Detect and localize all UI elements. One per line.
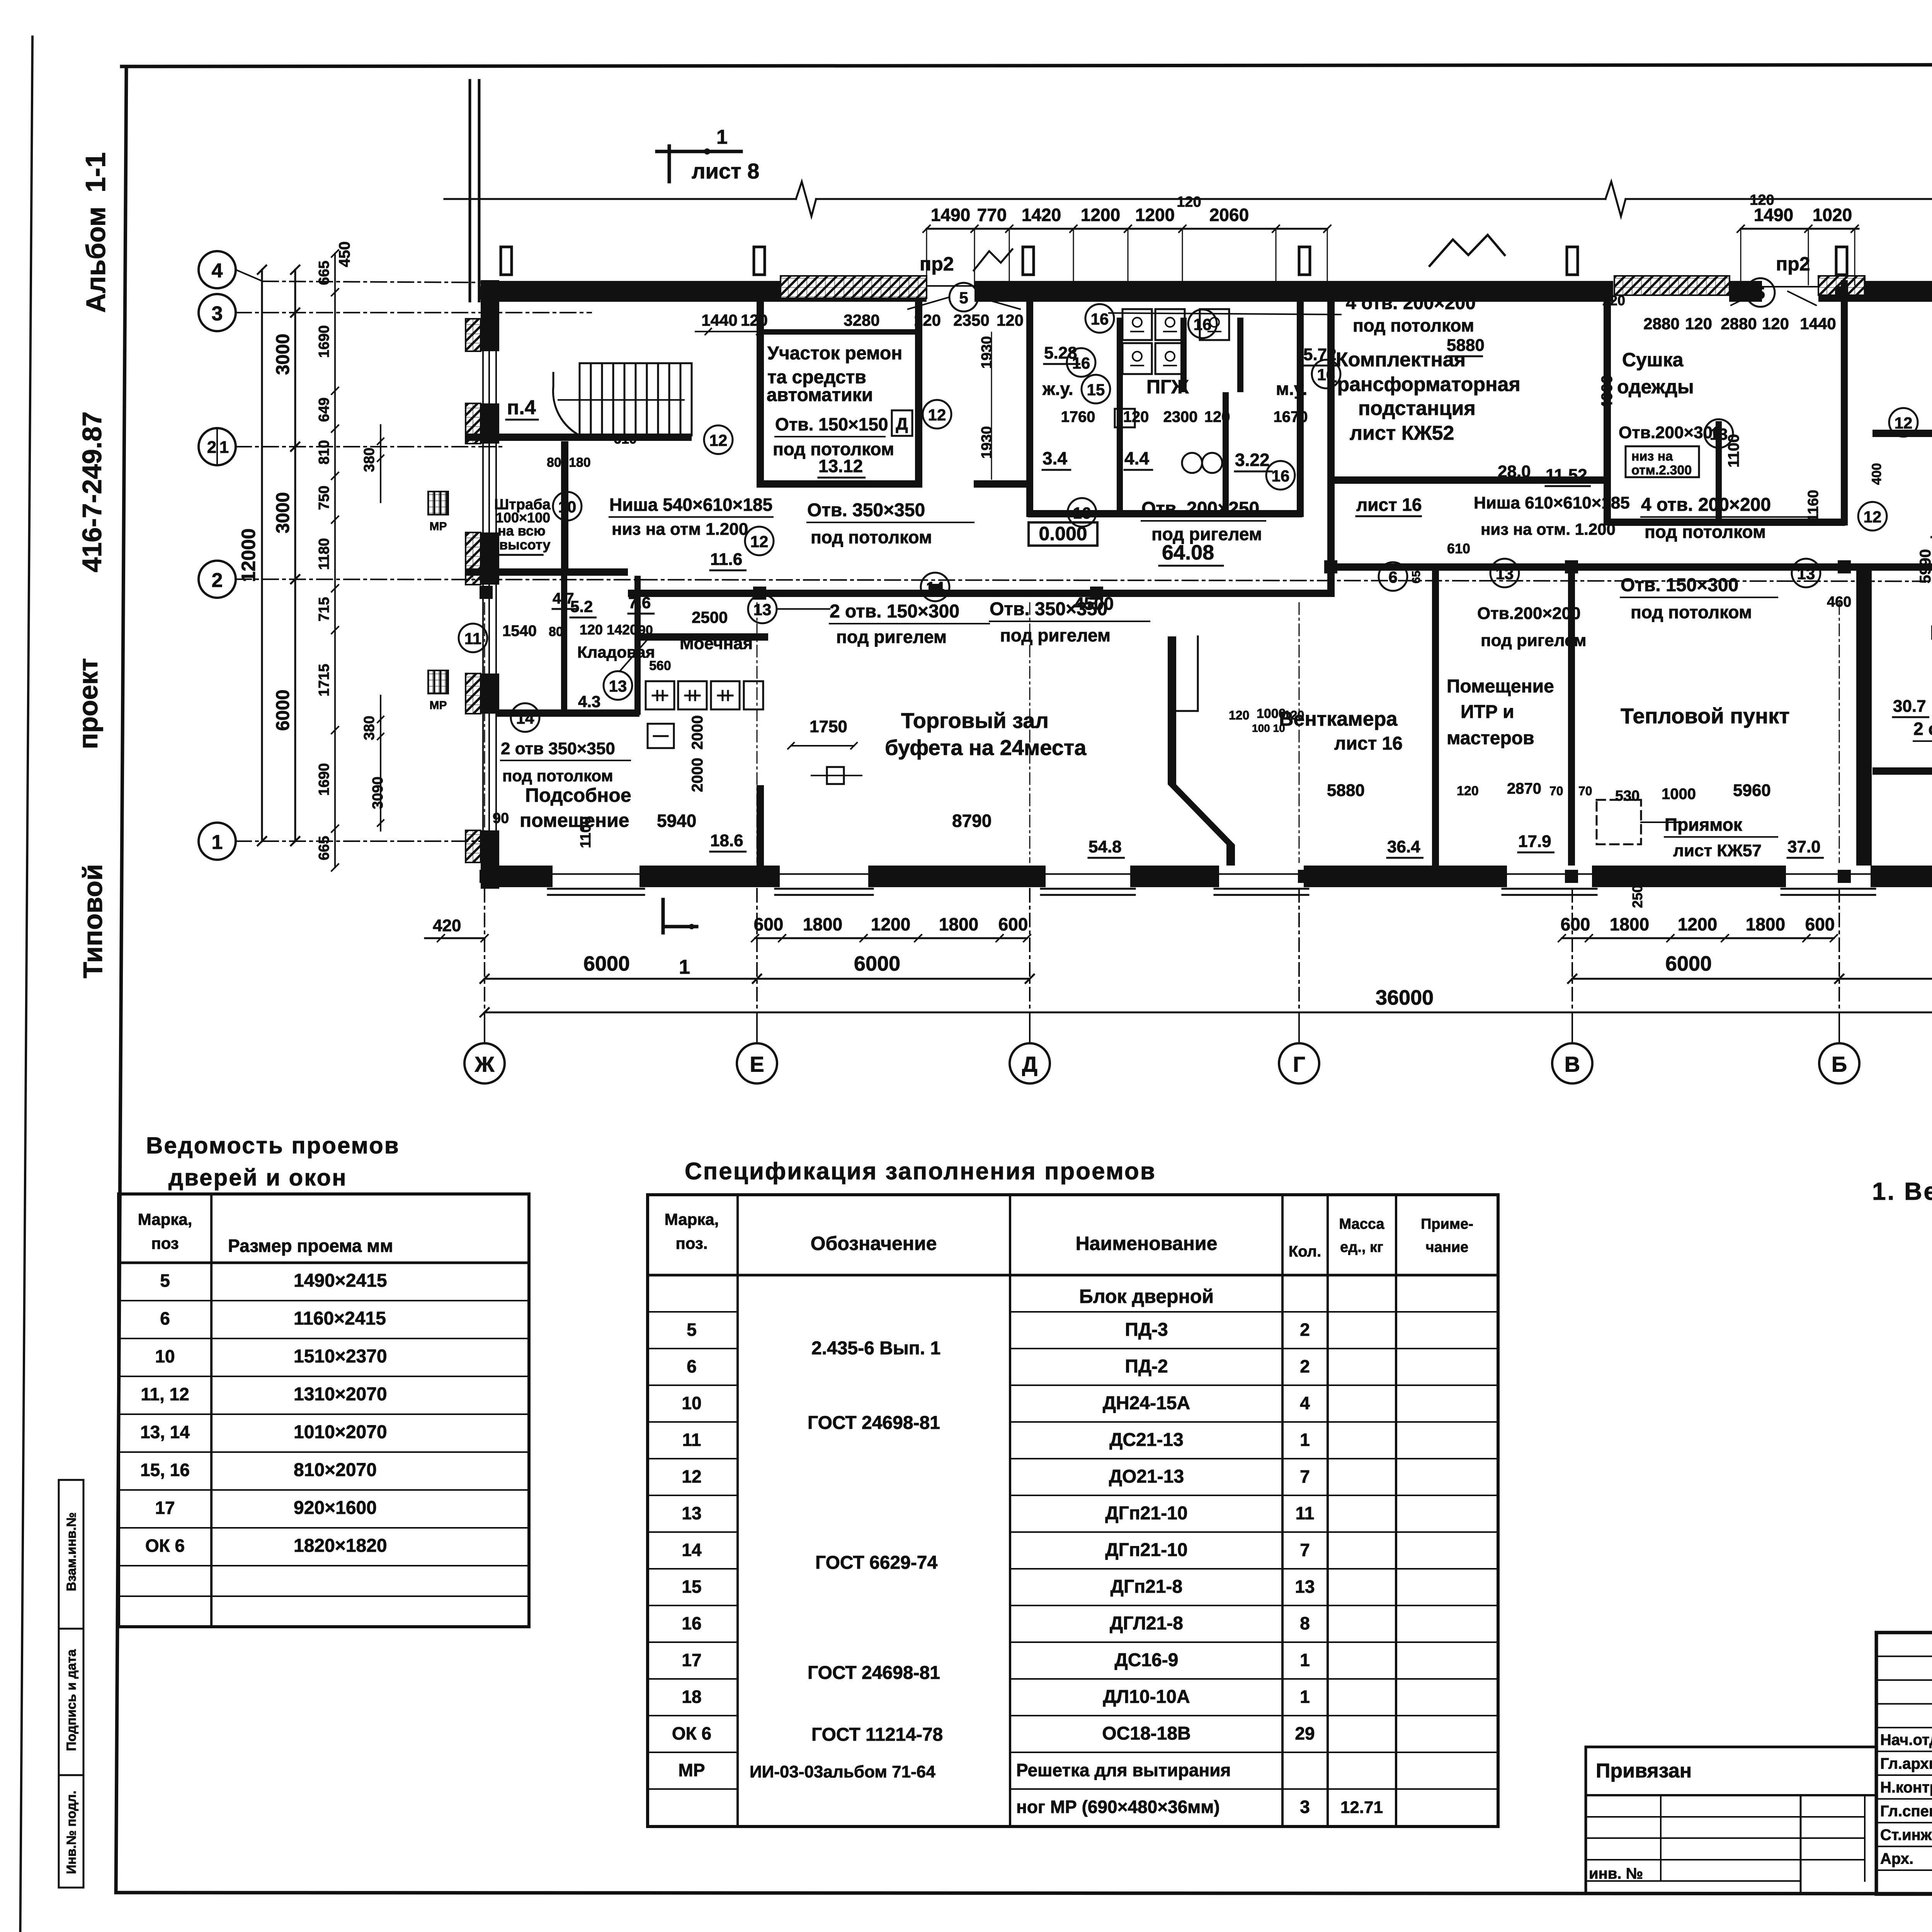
svg-text:12.71: 12.71 [1340,1798,1383,1817]
svg-text:5.2: 5.2 [570,597,593,616]
svg-text:16: 16 [682,1613,701,1633]
axis dash line in plan [1299,603,1300,862]
svg-text:90: 90 [493,810,509,827]
svg-text:1310×2070: 1310×2070 [294,1384,387,1405]
svg-text:11.6: 11.6 [710,550,742,569]
svg-text:250: 250 [1629,885,1645,908]
svg-text:ПГЖ: ПГЖ [1146,376,1189,398]
svg-text:Ниша 540×610×185: Ниша 540×610×185 [609,495,772,515]
svg-text:13: 13 [609,677,627,695]
svg-text:Размер проема мм: Размер проема мм [228,1236,393,1256]
svg-text:600: 600 [1805,914,1835,934]
svg-text:2: 2 [212,569,223,592]
svg-text:2060: 2060 [1209,205,1249,225]
svg-text:1800: 1800 [803,914,842,934]
svg-text:2: 2 [1300,1320,1310,1340]
svg-text:120: 120 [1204,408,1230,425]
wall: repair room right wall [915,302,922,487]
wall: stair bottom wall [466,434,692,441]
wall: axis G wall [1297,302,1304,517]
svg-text:Кладовая: Кладовая [577,643,655,661]
svg-text:16: 16 [1073,504,1091,522]
svg-text:14: 14 [682,1540,702,1560]
svg-text:1800: 1800 [1610,914,1649,934]
svg-text:1100: 1100 [578,816,594,848]
svg-text:ДС21-13: ДС21-13 [1109,1430,1184,1450]
column [480,286,493,299]
svg-text:лист 16: лист 16 [1334,733,1403,754]
svg-text:3.22: 3.22 [1235,450,1270,470]
svg-text:Привязан: Привязан [1596,1760,1692,1782]
svg-text:2: 2 [207,438,216,457]
svg-text:4: 4 [212,260,223,282]
svg-text:4 отв. 200×200: 4 отв. 200×200 [1346,293,1476,313]
svg-text:649: 649 [316,398,332,422]
svg-text:ед., кг: ед., кг [1340,1239,1383,1255]
svg-text:14: 14 [926,578,944,597]
ref circle 15 [1082,375,1110,403]
svg-text:12: 12 [928,406,946,424]
svg-text:ГОСТ 24698-81: ГОСТ 24698-81 [808,1663,940,1683]
left exterior wall [466,280,499,889]
ref circle 16 [1085,304,1114,333]
svg-text:380: 380 [361,716,378,740]
svg-text:лист 12: лист 12 [1930,523,1932,542]
svg-text:28.0: 28.0 [1498,462,1531,481]
svg-text:36.4: 36.4 [1387,837,1420,856]
svg-text:Обозначение: Обозначение [811,1233,937,1254]
svg-text:380: 380 [361,447,378,472]
svg-text:Гл.архпр: Гл.архпр [1880,1755,1932,1772]
axis dash line in plan [1572,603,1573,862]
svg-text:120: 120 [1123,408,1149,425]
svg-text:5.28: 5.28 [1044,344,1077,362]
svg-text:лист КЖ57: лист КЖ57 [1673,841,1762,860]
svg-text:под потолком: под потолком [1645,522,1766,542]
svg-text:7: 7 [1300,1466,1310,1486]
svg-text:Спецификация заполнения: Спецификация заполнения проемов [685,1158,1156,1185]
svg-text:1180: 1180 [316,538,332,570]
axis line Е [756,889,758,1043]
svg-text:5.72: 5.72 [1303,345,1337,364]
svg-text:610: 610 [614,431,637,447]
svg-text:18.6: 18.6 [710,831,743,850]
axis bubble 1 [199,823,236,860]
svg-text:1800: 1800 [939,914,978,934]
wing cut line middle part [816,198,1605,200]
ref circle 6 [1379,562,1407,591]
column [480,586,493,599]
ref circle 14 [921,573,949,601]
svg-text:6000: 6000 [854,952,900,975]
svg-text:Наименование: Наименование [1076,1233,1218,1254]
top exterior wall [481,276,1932,302]
svg-text:11: 11 [1296,1503,1315,1523]
svg-text:5940: 5940 [657,811,696,831]
ref circle 12 [923,400,951,429]
svg-text:90: 90 [638,623,653,638]
svg-text:530: 530 [1615,788,1639,804]
svg-text:Масса: Масса [1339,1216,1384,1232]
wall: drying room bottom wall [1608,519,1845,526]
axis line Г [1298,889,1300,1043]
ref circle 12 [1889,408,1918,437]
svg-text:920×1600: 920×1600 [294,1498,377,1518]
svg-text:1820×1820: 1820×1820 [294,1536,387,1556]
svg-text:1: 1 [1300,1687,1310,1707]
svg-text:120: 120 [914,311,941,329]
svg-text:665: 665 [316,836,332,860]
svg-text:3: 3 [212,303,223,325]
svg-text:Тепловой пункт: Тепловой пункт [1621,704,1790,728]
svg-text:2: 2 [1300,1356,1310,1376]
svg-text:ИИ-03-03альбом 71-64: ИИ-03-03альбом 71-64 [750,1762,935,1781]
svg-text:под ригелем: под ригелем [1000,625,1111,645]
stamp column divider 1 [59,1628,83,1630]
svg-text:12: 12 [682,1466,701,1486]
axis line 2 [236,579,1932,582]
vent chamber wall [1168,636,1235,866]
svg-text:4.4: 4.4 [1124,448,1149,468]
svg-text:665: 665 [316,261,332,285]
svg-text:ГОСТ 11214-78: ГОСТ 11214-78 [811,1725,943,1745]
svg-text:29: 29 [1295,1723,1315,1743]
svg-text:2880: 2880 [1643,315,1679,333]
svg-text:810×2070: 810×2070 [294,1460,377,1480]
svg-text:610: 610 [1447,541,1470,556]
svg-text:13: 13 [1496,565,1514,583]
svg-text:15: 15 [1087,381,1105,399]
dimension line 6000 row [485,978,1030,980]
ref circle 16 [1312,360,1340,388]
svg-text:ДГЛ21-8: ДГЛ21-8 [1110,1613,1183,1634]
svg-text:ОС18-18В: ОС18-18В [1102,1723,1190,1744]
svg-text:1: 1 [1300,1650,1310,1670]
svg-text:13, 14: 13, 14 [140,1422,190,1442]
column [1835,286,1848,299]
svg-text:1440: 1440 [1800,315,1836,333]
svg-text:ДГп21-10: ДГп21-10 [1105,1540,1187,1560]
svg-text:65: 65 [1410,571,1423,583]
svg-text:1020: 1020 [1813,205,1852,225]
svg-text:1490: 1490 [931,205,970,225]
svg-text:5990: 5990 [1917,549,1932,583]
svg-text:420: 420 [433,916,461,935]
stamp column right line [83,1480,85,1888]
column [1090,587,1103,600]
svg-text:ГОСТ 6629-74: ГОСТ 6629-74 [815,1553,938,1573]
svg-text:600: 600 [754,914,784,934]
svg-text:1800: 1800 [1746,914,1785,934]
left dim chain 3000/6000 [294,270,296,841]
svg-text:Марка,: Марка, [138,1210,192,1228]
svg-text:7.6: 7.6 [628,594,651,612]
svg-text:5960: 5960 [1733,781,1771,800]
column [1565,560,1578,573]
svg-text:Г: Г [1293,1052,1305,1076]
svg-text:17: 17 [155,1498,175,1518]
svg-text:ГОСТ 24698-81: ГОСТ 24698-81 [808,1413,940,1433]
svg-text:отм.2.300: отм.2.300 [1631,463,1692,478]
svg-text:ДС16-9: ДС16-9 [1115,1650,1179,1670]
ref circle 13 [1704,419,1733,448]
break mark right [1605,182,1626,216]
svg-text:5: 5 [160,1270,170,1291]
column [480,870,493,883]
svg-text:3: 3 [1300,1797,1310,1817]
svg-text:11, 12: 11, 12 [141,1384,189,1404]
wall: warm-up room top wall [1872,767,1932,775]
wall: transformer room right wall [1604,302,1611,526]
svg-text:под потолком: под потолком [811,527,932,547]
svg-text:3280: 3280 [844,311,879,329]
svg-text:5880: 5880 [1447,336,1485,355]
axis dash line in plan [484,603,485,862]
svg-text:2300: 2300 [1163,408,1198,425]
svg-text:поз.: поз. [675,1234,707,1252]
svg-text:Н.контр: Н.контр [1880,1779,1932,1796]
svg-text:1: 1 [219,438,229,457]
left dim chain 12000 [261,270,263,841]
svg-text:1200: 1200 [1135,205,1175,225]
ref circle 13 [1792,559,1820,587]
svg-text:ПД-3: ПД-3 [1125,1320,1168,1340]
svg-text:120 1420: 120 1420 [580,622,638,638]
ref circle 16 [1266,461,1295,490]
roof chevron marks [974,235,1505,270]
section mark 8 left (list 12) [1930,491,1932,542]
svg-text:подстанция: подстанция [1358,397,1476,420]
svg-text:1750: 1750 [810,717,847,736]
svg-text:высоту: высоту [499,537,551,553]
svg-text:1420: 1420 [1022,205,1061,225]
svg-text:2880: 2880 [1721,315,1757,333]
svg-text:1: 1 [1300,1430,1310,1450]
privyazan block [1586,1747,1876,1893]
svg-text:дверей и окон: дверей и окон [168,1165,347,1190]
axis line 2/1 [236,446,506,447]
top dim chain left [927,228,1327,230]
svg-text:2350: 2350 [953,311,989,329]
svg-text:17: 17 [682,1650,701,1670]
svg-text:1: 1 [679,956,690,978]
svg-text:В: В [1565,1052,1580,1076]
svg-text:3090: 3090 [370,777,386,810]
svg-text:1490×2415: 1490×2415 [294,1270,387,1291]
dimension line 36000 [485,1012,1932,1014]
svg-text:64.08: 64.08 [1162,541,1214,564]
svg-text:м.у.: м.у. [1276,379,1307,399]
wall: ITR room left wall [1432,563,1439,866]
wall: drying room partition [1716,421,1722,526]
axis line 3 [236,312,591,313]
wall: utility room top wall [497,709,639,717]
wall: axis V wall lower [1568,563,1575,866]
svg-text:6000: 6000 [273,690,293,731]
svg-text:ног МР (690×480×36мм): ног МР (690×480×36мм) [1016,1797,1220,1817]
svg-text:одежды: одежды [1617,376,1694,398]
svg-text:12: 12 [1895,414,1913,432]
washroom sinks [646,681,763,748]
svg-text:1760: 1760 [1061,408,1095,425]
svg-text:12: 12 [750,532,769,551]
svg-text:8790: 8790 [952,811,992,831]
wc cubicles [1122,309,1229,374]
svg-text:3000: 3000 [273,334,293,375]
svg-text:Взам.инв.№: Взам.инв.№ [64,1512,79,1591]
svg-text:1690: 1690 [316,763,332,796]
wall: storeroom partition [561,576,567,710]
stamp column bottom line [59,1887,83,1889]
svg-text:инв. №: инв. № [1589,1865,1643,1882]
frame top line [122,64,1932,66]
svg-text:МР: МР [430,520,447,533]
svg-text:600: 600 [998,914,1028,934]
column [753,870,766,883]
wall: washroom top wall [638,633,768,641]
ref circle 13 [604,671,632,700]
wall: sanitary block bottom wall [1028,510,1302,517]
stair p.4 [553,363,692,435]
axis bubble Д [1010,1043,1050,1083]
wing cut line left part [444,198,796,200]
svg-text:10: 10 [155,1346,175,1366]
axis bubble Е [737,1043,777,1083]
wall: sanitary partition 2b [1223,392,1229,517]
bottom window dim chains [755,937,1027,939]
svg-text:Отв.200×300: Отв.200×300 [1619,423,1722,442]
svg-text:МР: МР [679,1760,705,1780]
svg-text:Е: Е [750,1052,764,1076]
svg-text:1000: 1000 [1257,706,1286,721]
canopy post 5 [1567,247,1578,275]
svg-text:5880: 5880 [1327,781,1365,800]
svg-text:Нач.отд: Нач.отд [1880,1731,1932,1748]
svg-text:помещение: помещение [520,810,629,831]
column [753,286,766,299]
svg-text:Подпись и дата: Подпись и дата [64,1649,79,1751]
svg-text:Приме-: Приме- [1421,1216,1473,1232]
svg-text:Участок ремон: Участок ремон [767,343,902,364]
svg-text:100 10: 100 10 [1252,722,1285,734]
svg-text:460: 460 [1827,594,1851,610]
svg-text:7: 7 [1300,1540,1310,1560]
svg-text:ДН24-15А: ДН24-15А [1103,1393,1190,1413]
svg-text:пр2: пр2 [920,253,954,275]
pit dashed box [1597,800,1685,844]
svg-text:10: 10 [558,498,577,516]
svg-text:16: 16 [1272,467,1290,485]
svg-text:1200: 1200 [871,914,910,934]
svg-text:2 отв. 150×300: 2 отв. 150×300 [830,601,959,622]
svg-text:Отв. 150×300: Отв. 150×300 [1621,575,1738,595]
svg-text:буфета на 24места: буфета на 24места [885,735,1087,760]
svg-text:под ригелем: под ригелем [1481,631,1587,650]
svg-text:1160: 1160 [1805,490,1821,522]
openings list table [119,1133,529,1627]
canopy post 3 [1023,247,1034,275]
svg-text:120: 120 [1457,784,1479,798]
column [1566,286,1579,299]
wall: corridor north wall piece [974,480,1028,488]
svg-text:1: 1 [716,126,728,148]
svg-text:Блок дверной: Блок дверной [1079,1286,1214,1307]
wall: stair side wall [561,441,568,576]
repair room inner top wall [760,329,922,335]
svg-text:750: 750 [316,486,332,510]
axis line Ж [484,889,485,1043]
svg-text:Комплектная: Комплектная [1336,349,1466,371]
svg-text:8: 8 [1300,1613,1310,1633]
svg-text:120: 120 [1750,192,1774,208]
axis dash line in plan [757,603,758,862]
wall: corridor south wall left [628,590,1327,597]
svg-text:Д: Д [896,415,908,434]
svg-text:16: 16 [1194,315,1212,333]
svg-text:1-1: 1-1 [80,152,111,192]
section mark list 8 [657,126,759,183]
svg-text:1440: 1440 [701,311,737,329]
column [1565,870,1578,883]
svg-text:1715: 1715 [316,664,332,697]
ref circle 14 [511,703,539,732]
svg-text:1000: 1000 [1662,786,1696,803]
wall: vestibule top wall [1872,430,1932,437]
svg-text:450: 450 [336,241,353,267]
svg-text:400: 400 [1869,463,1884,485]
wall: sanitary partition 2 [1180,318,1187,392]
top dim chain right [1741,228,1859,230]
ref circle 13 [1490,559,1519,587]
svg-text:1930: 1930 [979,336,995,369]
left 380 chain [380,425,381,502]
axis bubble Б [1819,1043,1859,1083]
column [929,584,942,597]
stamp column left line [58,1480,60,1888]
svg-text:13: 13 [753,600,772,619]
svg-text:ПД-2: ПД-2 [1125,1356,1168,1377]
svg-text:80: 80 [547,455,561,470]
svg-text:37.0: 37.0 [1787,837,1821,856]
title block [1876,1633,1932,1894]
svg-text:низ на: низ на [1631,449,1673,464]
wall: storeroom top wall [466,568,628,576]
svg-text:70: 70 [1578,784,1592,798]
axis bubble 4 [199,251,236,288]
svg-text:17.9: 17.9 [1518,832,1551,851]
svg-text:2 отв. 200×300: 2 отв. 200×300 [1913,719,1932,739]
svg-text:1200: 1200 [1678,914,1717,934]
svg-text:36000: 36000 [1376,986,1434,1009]
svg-text:Торговый зал: Торговый зал [901,708,1049,733]
axis bubble 3 [199,294,236,331]
svg-text:80: 80 [549,624,563,639]
wall: sanitary partition 1 [1117,318,1123,517]
svg-text:ОК 6: ОК 6 [672,1723,711,1743]
svg-text:4000: 4000 [1599,375,1616,410]
svg-text:Отв. 150×150: Отв. 150×150 [775,414,888,434]
svg-text:Альбом: Альбом [81,207,111,313]
svg-text:под потолком: под потолком [1631,602,1752,622]
wall: sanitary partition 3 [1237,318,1243,392]
svg-text:2500: 2500 [692,608,728,626]
svg-text:Отв.200×200: Отв.200×200 [1477,604,1581,623]
wall: axis B wall [1841,280,1848,526]
svg-text:Ведомость проемов: Ведомость проемов [146,1133,400,1158]
svg-text:11.52: 11.52 [1546,466,1587,485]
svg-text:13.12: 13.12 [818,456,863,476]
svg-text:5: 5 [687,1320,697,1340]
